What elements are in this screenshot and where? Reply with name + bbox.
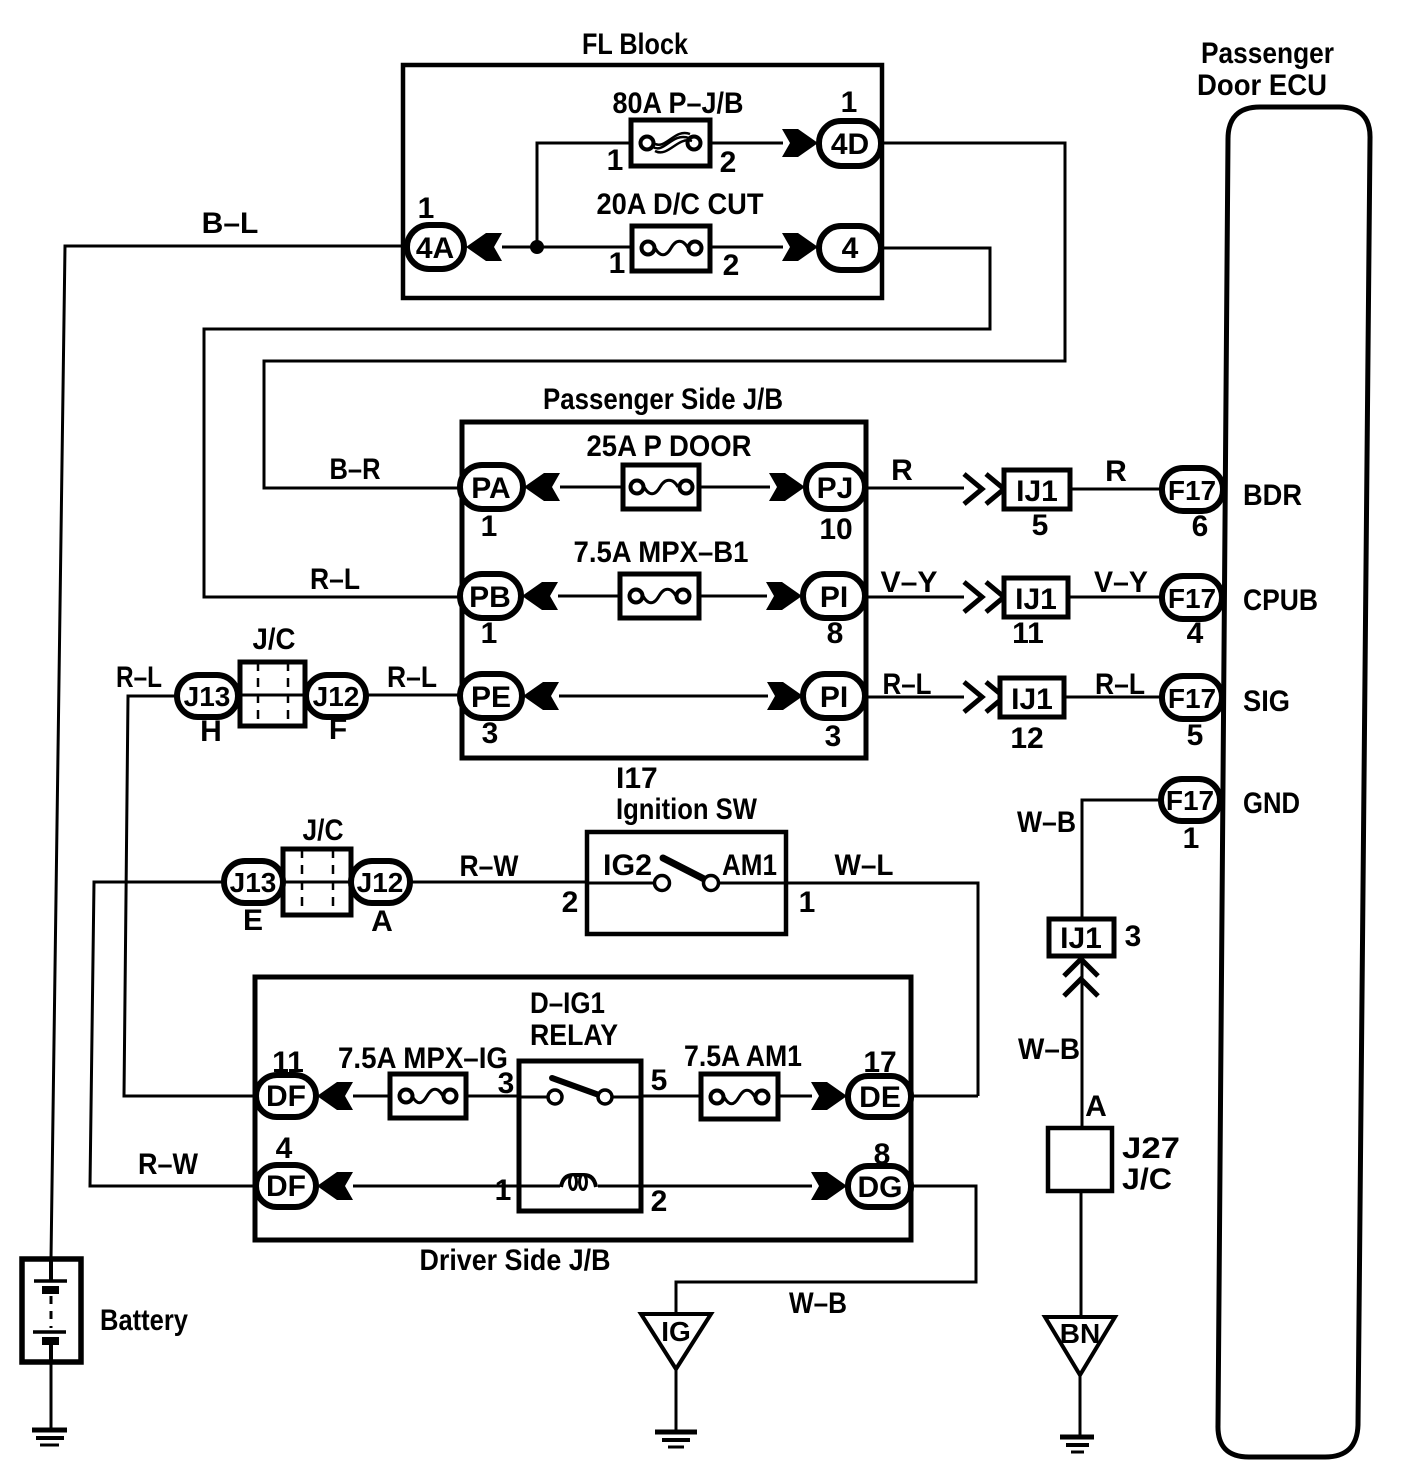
fuse 7.5A MPX-IG [390,1074,466,1118]
svg-text:RELAY: RELAY [530,1019,618,1052]
wire: IJ1 (3) down to J27 [1081,956,1084,1128]
svg-text:F: F [329,713,347,746]
wire out of switch [719,882,786,885]
svg-text:R–W: R–W [460,850,520,883]
switch contact AM1 [704,876,719,891]
svg-text:R–L: R–L [116,661,162,694]
wire: 4D loop to PA (B-R) [264,143,1065,488]
chevrons row 3 [964,682,1004,712]
connector J13 (H) [177,675,238,717]
svg-text:W–B: W–B [789,1287,847,1320]
svg-text:CPUB: CPUB [1243,584,1318,617]
svg-text:R–W: R–W [138,1148,199,1181]
svg-text:DE: DE [859,1081,901,1114]
svg-text:AM1: AM1 [722,849,777,882]
wire: 4A out to left and down to battery [51,246,407,1259]
svg-text:B–R: B–R [330,453,381,486]
svg-text:10: 10 [819,513,852,546]
arrow into PI (8) [766,582,802,610]
svg-text:5: 5 [1032,509,1049,542]
svg-text:R–L: R–L [387,661,437,694]
D-IG1 RELAY title [530,987,618,1052]
arrow into PI (3) [767,682,803,710]
junction connector J/C box (row H-F) [240,662,305,726]
svg-text:F17: F17 [1168,475,1216,506]
svg-text:5: 5 [1187,719,1204,752]
relay D-IG1 box [519,1061,641,1211]
svg-text:4D: 4D [831,128,869,161]
connector DE [848,1076,911,1117]
svg-text:7.5A MPX–B1: 7.5A MPX–B1 [574,536,749,569]
arrow into PJ [769,473,805,501]
arrow into 4D [782,129,818,157]
svg-text:1: 1 [609,247,626,280]
svg-text:Driver Side J/B: Driver Side J/B [420,1244,611,1277]
svg-text:A: A [1085,1090,1107,1123]
wire through J/C [177,694,460,697]
arrow into DF (4) [317,1172,353,1200]
wire: arrow to 7.5A fuse [558,595,620,598]
connector IJ1 (12) [1000,678,1064,717]
svg-text:DG: DG [858,1171,903,1204]
svg-text:4: 4 [276,1132,293,1165]
connector F17 (5) [1162,676,1222,719]
svg-text:J/C: J/C [303,814,344,847]
connector IJ1 (11) [1004,578,1068,617]
svg-text:PA: PA [471,472,510,505]
arrow into 4A [466,233,502,261]
svg-text:Passenger Side J/B: Passenger Side J/B [543,383,783,416]
J/C dashed pins [302,849,333,915]
connector F17 (4) [1162,576,1222,619]
wire: DE to W-L riser [911,1095,978,1098]
svg-text:PJ: PJ [817,472,854,505]
connector J13 (E) [224,861,283,903]
svg-text:3: 3 [1125,920,1142,953]
svg-text:2: 2 [651,1185,668,1218]
battery [22,1259,81,1362]
chevrons up below IJ1 (3) [1064,959,1098,996]
wire: arrow to 20A fuse [502,246,632,249]
wire: PJ to chevrons (R) [865,487,964,490]
Ignition SW box [587,832,786,934]
wire: battery to ground [50,1362,53,1430]
svg-text:R: R [891,454,913,487]
wire: fuse to relay pin 3 [466,1095,519,1098]
wire: arrow to MPX-IG fuse [353,1095,390,1098]
svg-text:F17: F17 [1168,583,1216,614]
svg-text:I17: I17 [616,762,658,795]
wire: arrow to 25A fuse [560,486,623,489]
svg-text:R: R [1105,455,1127,488]
svg-text:2: 2 [562,886,579,919]
svg-text:A: A [371,905,393,938]
svg-text:IJ1: IJ1 [1060,922,1102,955]
relay contact left [548,1090,562,1104]
svg-text:F17: F17 [1168,683,1216,714]
connector J12 (A) [351,861,410,903]
fuse 80A P-J/B (fusible link) [631,120,710,166]
wire: 25A fuse to arrow [699,486,770,489]
svg-text:1: 1 [418,192,435,225]
connector DF (11) [256,1075,316,1117]
svg-text:1: 1 [607,144,624,177]
connector PI (3) [803,674,865,718]
switch lever [663,858,708,881]
connector PI (8) [803,574,865,618]
svg-text:R–L: R–L [1095,668,1145,701]
junction connector J27 J/C box [1048,1128,1112,1191]
wire: ignition AM1 down to DE [786,883,978,1096]
svg-text:IG: IG [661,1316,691,1347]
svg-text:W–B: W–B [1018,1033,1080,1066]
svg-text:5: 5 [651,1064,668,1097]
wire: relay to AM1 fuse [641,1095,701,1098]
wire: PI to chevrons (V-Y) [865,596,964,599]
connector PB [460,574,521,618]
svg-text:8: 8 [827,617,844,650]
Passenger Door ECU title [1197,37,1334,102]
svg-text:W–L: W–L [835,849,894,882]
svg-text:Ignition SW: Ignition SW [616,793,758,826]
svg-text:8: 8 [874,1138,891,1171]
svg-text:4: 4 [842,232,859,265]
wire: riser from junction to 80A fuse row [537,143,631,247]
svg-text:80A P–J/B: 80A P–J/B [613,87,744,120]
FL Block box [403,65,882,298]
svg-text:B–L: B–L [202,207,259,240]
svg-text:PE: PE [471,681,511,714]
svg-text:FL Block: FL Block [582,28,688,61]
svg-text:25A P DOOR: 25A P DOOR [587,430,752,463]
switch contact IG2 [655,876,670,891]
svg-text:1: 1 [1183,822,1200,855]
fuse 20A D/C CUT [632,226,710,271]
svg-text:J/C: J/C [1122,1163,1172,1196]
svg-text:V–Y: V–Y [881,566,938,599]
svg-text:1: 1 [841,86,858,119]
svg-text:J13: J13 [184,681,231,712]
connector PA [460,465,523,509]
connector DG [848,1166,911,1207]
relay switch wire right [612,1096,641,1099]
svg-text:V–Y: V–Y [1094,566,1148,599]
svg-text:IG2: IG2 [603,849,652,882]
svg-text:Battery: Battery [100,1304,188,1337]
svg-text:IJ1: IJ1 [1015,583,1057,616]
svg-text:J27: J27 [1122,1132,1180,1165]
svg-text:R–L: R–L [310,563,360,596]
Driver Side J/B box [255,977,911,1240]
wire through J/C to ignition switch [224,881,587,884]
svg-text:1: 1 [799,886,816,919]
wire: DG to IG ground triangle [676,1186,976,1314]
svg-text:BDR: BDR [1243,479,1302,512]
connector DF (4) [256,1165,316,1207]
svg-text:W–B: W–B [1017,806,1076,839]
svg-text:12: 12 [1010,722,1043,755]
svg-text:J13: J13 [230,867,277,898]
svg-text:7.5A MPX–IG: 7.5A MPX–IG [338,1042,508,1075]
connector 4A [407,225,464,269]
J/C dashed pins [258,662,288,726]
svg-text:6: 6 [1192,510,1209,543]
relay contact right [598,1090,612,1104]
wire: IG to ground [675,1369,678,1430]
ground triangle BN [1045,1317,1115,1375]
svg-text:Passenger: Passenger [1201,37,1334,70]
wire: F17 GND down to IJ1 (3) [1082,800,1161,919]
svg-text:PI: PI [820,581,848,614]
Passenger Side J/B box [462,422,866,758]
wire: IJ1 to F17 (R-L) [1064,696,1162,699]
arrow into DG [811,1172,847,1200]
svg-text:D–IG1: D–IG1 [530,987,605,1020]
svg-text:J/C: J/C [253,623,296,656]
arrow into 4 [782,233,818,261]
svg-text:1: 1 [481,510,498,543]
wire: fuse to arrow [699,595,767,598]
wire: PI to chevrons (R-L) [865,696,964,699]
connector IJ1 (5) [1004,470,1070,509]
fuse 7.5A MPX-B1 [620,574,699,618]
svg-text:F17: F17 [1166,785,1214,816]
svg-text:2: 2 [720,146,737,179]
svg-text:H: H [200,715,222,748]
svg-text:2: 2 [723,249,740,282]
wire: IJ1 to F17 (V-Y) [1068,596,1162,599]
wire: 20A fuse to arrow [710,246,783,249]
relay lever [552,1078,599,1095]
wire: IJ1 to F17 (R) [1070,488,1162,491]
svg-text:E: E [243,904,263,937]
svg-text:4: 4 [1187,617,1204,650]
connector F17 (6) [1162,468,1223,511]
svg-text:4A: 4A [416,232,454,265]
svg-text:DF: DF [266,1170,306,1203]
wire: J27 down to BN [1080,1191,1083,1317]
wire: coil to DG arrow [598,1185,812,1188]
svg-text:1: 1 [495,1174,512,1207]
relay coil [561,1175,596,1190]
svg-text:PB: PB [469,581,511,614]
svg-text:J12: J12 [357,867,404,898]
Passenger Door ECU body [1218,107,1370,1457]
ground symbol BN [1060,1437,1094,1452]
svg-text:20A D/C CUT: 20A D/C CUT [597,188,764,221]
arrow into DF (11) [317,1082,353,1110]
chevrons row 1 [964,474,1004,504]
connector 4D [819,121,881,166]
ground symbol battery [32,1430,67,1445]
relay switch wire left [519,1096,548,1099]
svg-text:PI: PI [820,681,848,714]
wire: arrow to relay coil [353,1185,560,1188]
wire: fuse to arrow [778,1095,812,1098]
svg-text:GND: GND [1243,787,1300,820]
ground symbol IG [655,1432,697,1447]
connector 4 [819,226,881,270]
svg-text:DF: DF [266,1080,306,1113]
svg-text:3: 3 [482,717,499,750]
svg-text:IJ1: IJ1 [1011,683,1053,716]
wire: BN to ground [1079,1375,1082,1435]
connector PE [460,674,522,718]
svg-text:17: 17 [863,1046,896,1079]
chevrons row 2 [964,582,1004,612]
svg-text:3: 3 [825,720,842,753]
wire: 4 loop to PB (R-L) [204,248,990,597]
wire: PE arrow to PI arrow [559,695,768,698]
svg-text:R–L: R–L [883,668,932,701]
svg-text:J12: J12 [313,681,360,712]
fuse 25A P DOOR [623,465,699,509]
wire: 80A fuse to arrow [710,142,783,145]
svg-text:1: 1 [481,617,498,650]
connector IJ1 (3) [1049,919,1114,956]
svg-text:SIG: SIG [1243,685,1290,718]
connector J12 (F) [306,675,366,717]
arrow into PB [522,582,558,610]
arrow into DE [811,1082,847,1110]
arrow into PA [524,473,560,501]
svg-text:11: 11 [1012,617,1044,650]
svg-text:BN: BN [1060,1318,1100,1349]
svg-text:Door ECU: Door ECU [1197,69,1327,102]
junction dot [530,240,544,254]
svg-text:IJ1: IJ1 [1016,475,1058,508]
fuse 7.5A AM1 [701,1074,778,1119]
arrow into PE [523,682,559,710]
wire: J13 H row down to DF 11 [124,696,256,1096]
wire: J13 E row from left vertical down to DF 4 [90,882,256,1186]
connector PJ [806,465,865,509]
svg-text:7.5A AM1: 7.5A AM1 [684,1040,802,1073]
svg-text:3: 3 [498,1067,515,1100]
junction connector J/C box (row E-A) [283,849,351,915]
ground triangle IG [641,1314,711,1369]
wire into switch [587,882,655,885]
svg-text:11: 11 [272,1046,304,1079]
connector F17 (1) GND [1161,779,1220,821]
